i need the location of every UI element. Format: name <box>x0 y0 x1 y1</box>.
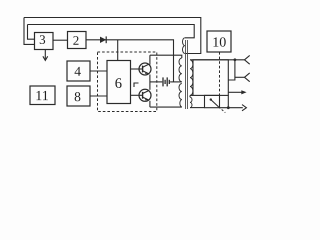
svg-text:4: 4 <box>74 64 81 79</box>
svg-text:3: 3 <box>39 32 46 47</box>
svg-text:10: 10 <box>212 36 226 51</box>
svg-text:6: 6 <box>115 76 122 92</box>
svg-text:8: 8 <box>74 89 81 104</box>
svg-text:2: 2 <box>73 33 80 48</box>
svg-text:11: 11 <box>35 89 49 104</box>
